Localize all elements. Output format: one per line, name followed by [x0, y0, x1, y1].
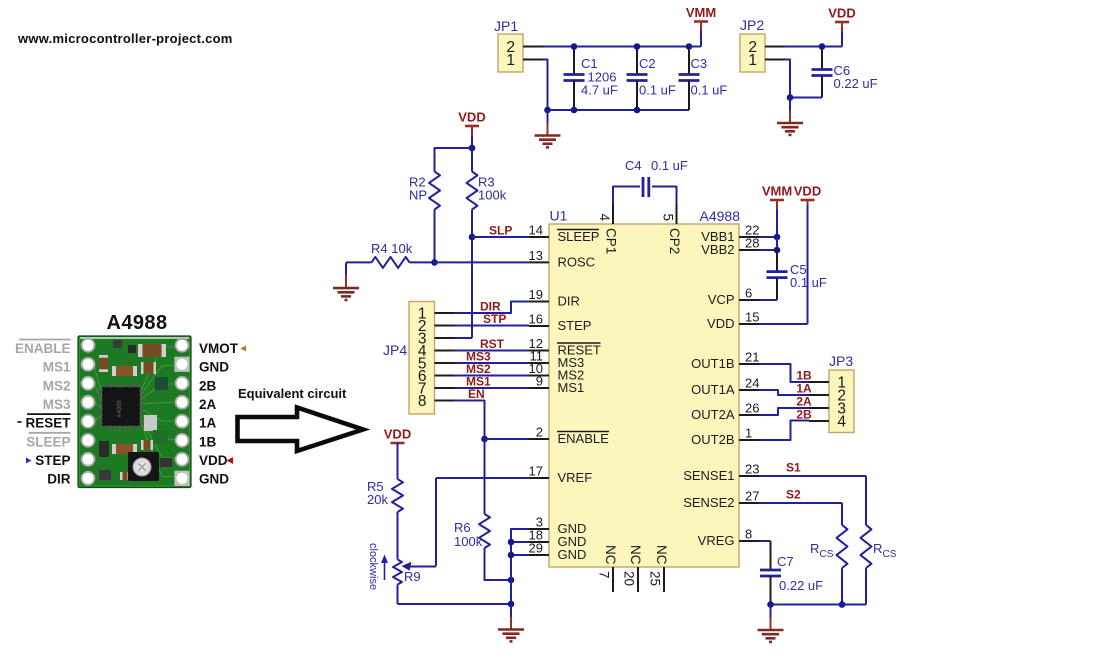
wire R9 wiper to VREF — [436, 478, 529, 566]
svg-text:VBB2: VBB2 — [701, 242, 734, 257]
svg-text:VCP: VCP — [708, 292, 735, 307]
connector JP4 — [383, 302, 455, 415]
svg-text:VREF: VREF — [558, 470, 593, 485]
svg-text:0.22 uF: 0.22 uF — [779, 578, 823, 593]
svg-text:R4 10k: R4 10k — [371, 241, 413, 256]
junction C7 bottom — [767, 601, 774, 608]
svg-text:STEP: STEP — [558, 318, 592, 333]
wire SENSE1 S1 — [759, 476, 866, 525]
label 2A net — [796, 395, 812, 409]
svg-text:C3: C3 — [691, 56, 708, 71]
pin 14 SLEEP — [529, 223, 600, 245]
svg-text:ENABLE: ENABLE — [15, 341, 71, 356]
svg-text:100k: 100k — [478, 188, 507, 203]
pin 12 RESET — [529, 336, 601, 358]
marker arrow before STEP — [26, 458, 32, 464]
svg-text:ENABLE: ENABLE — [558, 431, 610, 446]
svg-text:STP: STP — [483, 312, 506, 326]
power VDD above R5 — [384, 427, 411, 456]
pin 18 GND — [529, 528, 587, 550]
pin 22 VBB1 — [701, 223, 759, 245]
wire sense ground rail — [771, 604, 867, 606]
label 2B net — [796, 408, 812, 422]
potentiometer R9 — [393, 512, 436, 604]
svg-text:9: 9 — [536, 374, 543, 389]
PCB label GND at 483 — [199, 472, 229, 487]
PCB label MS3 — [43, 397, 71, 412]
wire JP2 pin 2 to VDD — [785, 46, 842, 48]
svg-text:1B: 1B — [796, 369, 812, 383]
svg-text:A4988: A4988 — [700, 208, 741, 224]
pin 4 CP1 — [597, 204, 619, 254]
wire OUT1A to JP3 pin2 — [759, 390, 809, 395]
PCB label VMOT at 353 — [199, 341, 239, 356]
PCB label SLEEP — [26, 433, 70, 450]
svg-text:C7: C7 — [777, 554, 794, 569]
arrow equivalent circuit — [238, 408, 364, 452]
pin 8 VREG — [698, 527, 759, 549]
PCB board photo A4988 module — [78, 336, 191, 488]
power VMM right — [762, 184, 792, 238]
svg-text:8: 8 — [745, 527, 752, 542]
svg-text:ROSC: ROSC — [558, 254, 596, 269]
PCB label 2B at 390 — [199, 378, 217, 393]
wire JP4 pin2 to STEP pin — [455, 325, 530, 327]
marker after VMOT — [241, 346, 247, 352]
svg-text:MS3: MS3 — [43, 397, 71, 412]
svg-text:C2: C2 — [639, 56, 656, 71]
svg-text:C4: C4 — [625, 158, 642, 173]
label 1A net — [796, 382, 812, 396]
pin 9 MS1 — [529, 374, 584, 396]
svg-text:2B: 2B — [199, 378, 217, 393]
svg-text:S2: S2 — [786, 488, 801, 502]
PCB label 1A at 427 — [199, 416, 217, 431]
pin 15 VDD — [707, 310, 759, 332]
pin 23 SENSE1 — [683, 462, 759, 484]
junction VBB1 — [774, 234, 781, 241]
svg-text:14: 14 — [529, 223, 543, 238]
svg-text:RESET: RESET — [25, 416, 71, 431]
pin 24 OUT1A — [691, 376, 759, 398]
junction ENABLE node — [481, 436, 488, 443]
svg-text:29: 29 — [529, 541, 543, 556]
junction C1 top — [571, 43, 578, 50]
junction R6 bottom — [508, 577, 515, 584]
ground at R4 — [333, 263, 359, 300]
PCB label DIR — [47, 472, 71, 487]
svg-text:20k: 20k — [367, 492, 388, 507]
ground under JP2 — [777, 98, 803, 135]
label S1 net — [786, 461, 801, 475]
junction C6 top — [819, 43, 826, 50]
svg-text:15: 15 — [745, 310, 759, 325]
svg-text:20: 20 — [622, 571, 637, 586]
svg-text:2A: 2A — [199, 397, 217, 412]
junction SLP node — [469, 234, 476, 241]
wire bottom ground rail — [548, 109, 690, 111]
svg-text:27: 27 — [745, 489, 759, 504]
arrow clockwise direction — [381, 555, 388, 581]
label 1B net — [796, 369, 812, 383]
svg-text:CP1: CP1 — [604, 228, 619, 254]
svg-text:5: 5 — [661, 214, 676, 222]
svg-text:1: 1 — [745, 426, 752, 441]
capacitor C1 — [564, 47, 618, 111]
label Equivalent circuit — [238, 386, 347, 401]
svg-text:24: 24 — [745, 376, 759, 391]
junction C3 top — [686, 43, 693, 50]
svg-text:S1: S1 — [786, 461, 801, 475]
svg-text:DIR: DIR — [47, 472, 71, 487]
resistor R3 — [467, 148, 507, 210]
pin 28 VBB2 — [701, 236, 759, 258]
svg-text:JP3: JP3 — [829, 353, 853, 369]
svg-text:0.1 uF: 0.1 uF — [639, 83, 676, 98]
svg-text:0.1 uF: 0.1 uF — [691, 83, 728, 98]
capacitor C4 — [613, 158, 688, 204]
junction VDD R2 R3 — [469, 145, 476, 152]
svg-text:OUT1B: OUT1B — [691, 356, 734, 371]
svg-text:CS: CS — [883, 549, 897, 560]
pin 10 MS2 — [529, 361, 585, 383]
pin 17 VREF — [529, 464, 593, 486]
junction RCS bottom — [839, 601, 846, 608]
svg-text:STEP: STEP — [35, 453, 70, 468]
svg-text:SLP: SLP — [489, 224, 512, 238]
pin 25 NC — [648, 545, 670, 592]
resistor R5 — [367, 443, 403, 512]
pin 13 ROSC — [529, 248, 596, 270]
svg-text:OUT2B: OUT2B — [691, 432, 734, 447]
svg-text:VDD: VDD — [458, 110, 485, 125]
capacitor C5 — [759, 250, 827, 300]
wire R3 to JP4 pin 3 vertical — [455, 210, 473, 339]
PCB label ENABLE — [15, 340, 71, 357]
wire ENABLE to chip — [485, 438, 530, 440]
svg-text:OUT2A: OUT2A — [691, 407, 735, 422]
svg-text:OUT1A: OUT1A — [691, 382, 735, 397]
svg-text:17: 17 — [529, 464, 543, 479]
svg-text:100k: 100k — [454, 534, 483, 549]
junction JP2 ground node — [787, 94, 794, 101]
PCB label 2A at 409 — [199, 397, 217, 412]
svg-text:MS2: MS2 — [43, 378, 71, 393]
svg-text:VMM: VMM — [686, 5, 716, 20]
power VDD top right — [828, 6, 855, 47]
label SLP — [489, 224, 512, 238]
label MS1 net — [466, 375, 491, 389]
wire VBB2 — [759, 237, 777, 250]
pin 6 VCP — [708, 286, 759, 308]
svg-text:2A: 2A — [796, 395, 812, 409]
capacitor C3 — [679, 47, 728, 111]
svg-text:2: 2 — [536, 425, 543, 440]
ground bottom center — [498, 604, 524, 641]
svg-text:21: 21 — [745, 350, 759, 365]
wire SLP to SLEEP pin — [472, 236, 529, 238]
svg-text:R: R — [873, 541, 882, 556]
wire JP4 pin4 to RESET pin — [455, 350, 530, 352]
label DIR net — [480, 300, 501, 314]
website caption text — [17, 31, 233, 46]
wire OUT1B to JP3 pin1 — [759, 364, 809, 382]
pin 16 STEP — [529, 312, 592, 334]
wire JP4 pin6 MS2 — [455, 375, 530, 377]
svg-text:4.7 uF: 4.7 uF — [581, 83, 618, 98]
svg-text:U1: U1 — [550, 208, 568, 224]
pin 7 NC — [597, 545, 619, 592]
PCB label STEP — [35, 453, 70, 468]
wire ROSC to chip — [435, 261, 530, 263]
power VMM top — [686, 5, 716, 47]
svg-text:13: 13 — [529, 248, 543, 263]
svg-text:SENSE1: SENSE1 — [683, 468, 734, 483]
svg-text:VDD: VDD — [384, 427, 411, 442]
svg-text:GND: GND — [558, 547, 587, 562]
wire OUT2A to JP3 pin3 — [759, 408, 809, 415]
label EN net — [468, 387, 485, 401]
svg-text:6: 6 — [745, 286, 752, 301]
svg-text:SENSE2: SENSE2 — [683, 495, 734, 510]
pin 3 GND — [529, 515, 586, 537]
capacitor C7 — [759, 541, 823, 605]
svg-text:R9: R9 — [404, 569, 421, 584]
wire GND bus — [511, 529, 529, 604]
pin 5 CP2 — [661, 204, 683, 254]
svg-text:1: 1 — [506, 52, 515, 69]
pin 29 GND — [529, 541, 587, 563]
pin 2 ENABLE — [529, 425, 609, 447]
capacitor C6 — [812, 47, 878, 98]
label A4988 board title — [107, 312, 168, 334]
svg-text:clockwise: clockwise — [367, 543, 379, 590]
svg-text:4: 4 — [837, 414, 846, 431]
svg-text:Equivalent circuit: Equivalent circuit — [238, 386, 347, 401]
junction C2 top — [634, 43, 641, 50]
op-amp U1 A4988 chip body — [549, 208, 740, 568]
svg-text:CP2: CP2 — [667, 228, 682, 254]
junction JP1 ground node — [544, 107, 551, 114]
svg-text:26: 26 — [745, 401, 759, 416]
pin 27 SENSE2 — [683, 489, 759, 511]
wire SENSE2 S2 — [759, 503, 842, 525]
svg-text:28: 28 — [745, 236, 759, 251]
junction GND pin29 — [508, 552, 515, 559]
svg-text:4: 4 — [597, 214, 612, 222]
PCB label MS1 — [43, 360, 71, 375]
junction C1 bottom — [571, 107, 578, 114]
junction GND pin18 — [508, 539, 515, 546]
svg-text:www.microcontroller-project.co: www.microcontroller-project.com — [17, 31, 233, 46]
resistor RCS left — [810, 525, 848, 605]
wire JP4 pin5 MS3 — [455, 362, 530, 364]
pin 26 OUT2A — [691, 401, 759, 423]
svg-text:0.22 uF: 0.22 uF — [834, 76, 878, 91]
svg-text:NC: NC — [603, 545, 618, 565]
svg-text:JP1: JP1 — [494, 18, 518, 34]
wire JP1 pin 1 to ground rail — [543, 60, 548, 111]
svg-text:VDD: VDD — [794, 184, 821, 199]
svg-text:0.1 uF: 0.1 uF — [651, 158, 688, 173]
svg-text:VMOT: VMOT — [199, 341, 239, 356]
svg-text:VDD: VDD — [707, 316, 734, 331]
junction bottom rail — [508, 601, 515, 608]
ground under JP1 rail — [535, 110, 561, 147]
pin 1 OUT2B — [691, 426, 759, 448]
wire JP4 pin7 MS1 — [455, 387, 530, 389]
svg-text:VREG: VREG — [698, 533, 735, 548]
svg-text:2B: 2B — [796, 408, 812, 422]
svg-text:JP4: JP4 — [383, 342, 407, 358]
wire JP4 pin8 EN — [455, 401, 485, 440]
wire bottom rail — [398, 603, 512, 605]
svg-text:19: 19 — [529, 287, 543, 302]
svg-text:VDD: VDD — [199, 453, 228, 468]
svg-text:NC: NC — [628, 545, 643, 565]
pin 11 MS3 — [529, 349, 584, 371]
svg-text:8: 8 — [418, 393, 427, 410]
svg-text:23: 23 — [745, 462, 759, 477]
PCB label GND at 371 — [199, 360, 229, 375]
PCB label 1B at 446 — [199, 434, 217, 449]
svg-text:JP2: JP2 — [740, 17, 764, 33]
resistor R2 — [409, 148, 472, 262]
svg-text:1A: 1A — [199, 416, 217, 431]
svg-text:VMM: VMM — [762, 184, 792, 199]
label RST net — [480, 337, 505, 351]
svg-text:DIR: DIR — [558, 294, 580, 309]
wire JP2 pin 1 to ground — [785, 60, 822, 98]
svg-text:7: 7 — [597, 571, 612, 579]
pin 19 DIR — [529, 287, 580, 309]
svg-text:1: 1 — [748, 52, 757, 69]
connector JP3 — [809, 353, 854, 433]
svg-text:EN: EN — [468, 387, 485, 401]
svg-text:NP: NP — [409, 188, 427, 203]
ground bottom right — [758, 605, 784, 642]
svg-text:MS1: MS1 — [43, 360, 71, 375]
resistor R6 — [454, 439, 511, 580]
svg-text:CS: CS — [820, 549, 834, 560]
marker dot before RESET — [18, 421, 22, 423]
svg-text:VDD: VDD — [828, 6, 855, 21]
svg-text:1B: 1B — [199, 434, 217, 449]
svg-text:GND: GND — [199, 360, 229, 375]
svg-text:NC: NC — [654, 545, 669, 565]
svg-text:R6: R6 — [454, 520, 471, 535]
pin 21 OUT1B — [691, 350, 759, 372]
label S2 net — [786, 488, 801, 502]
resistor R4 — [346, 241, 435, 268]
power VDD right — [759, 184, 821, 325]
PCB label MS2 — [43, 378, 71, 393]
marker after VDD — [227, 457, 234, 464]
junction VBB2 — [774, 247, 781, 254]
junction C2 bottom — [634, 107, 641, 114]
label STP net — [483, 312, 506, 326]
connector JP2 — [740, 17, 785, 72]
wire VBB1 — [759, 236, 777, 238]
wire VMM top rail from JP1 pin 2 — [543, 46, 701, 48]
svg-text:GND: GND — [199, 472, 229, 487]
svg-text:R: R — [810, 541, 819, 556]
svg-text:16: 16 — [529, 312, 543, 327]
svg-text:A4988: A4988 — [117, 400, 123, 418]
wire JP4 pin1 to DIR pin — [455, 302, 530, 314]
wire OUT2B to JP3 pin4 — [759, 421, 809, 441]
pin 20 NC — [622, 545, 644, 592]
svg-text:MS1: MS1 — [558, 380, 585, 395]
PCB label VDD at 465 — [199, 453, 228, 468]
svg-text:A4988: A4988 — [107, 312, 168, 334]
capacitor C2 — [627, 47, 676, 111]
resistor RCS right — [861, 525, 897, 605]
label MS3 net — [466, 350, 491, 364]
label MS2 net — [466, 362, 491, 376]
connector JP1 — [494, 18, 543, 72]
svg-text:SLEEP: SLEEP — [26, 434, 70, 449]
junction ROSC node — [431, 259, 438, 266]
svg-text:1A: 1A — [796, 382, 812, 396]
svg-text:25: 25 — [648, 571, 663, 586]
label clockwise — [367, 543, 379, 590]
power VDD above R3 — [458, 110, 485, 149]
PCB label RESET — [25, 414, 71, 431]
svg-text:SLEEP: SLEEP — [558, 229, 600, 244]
